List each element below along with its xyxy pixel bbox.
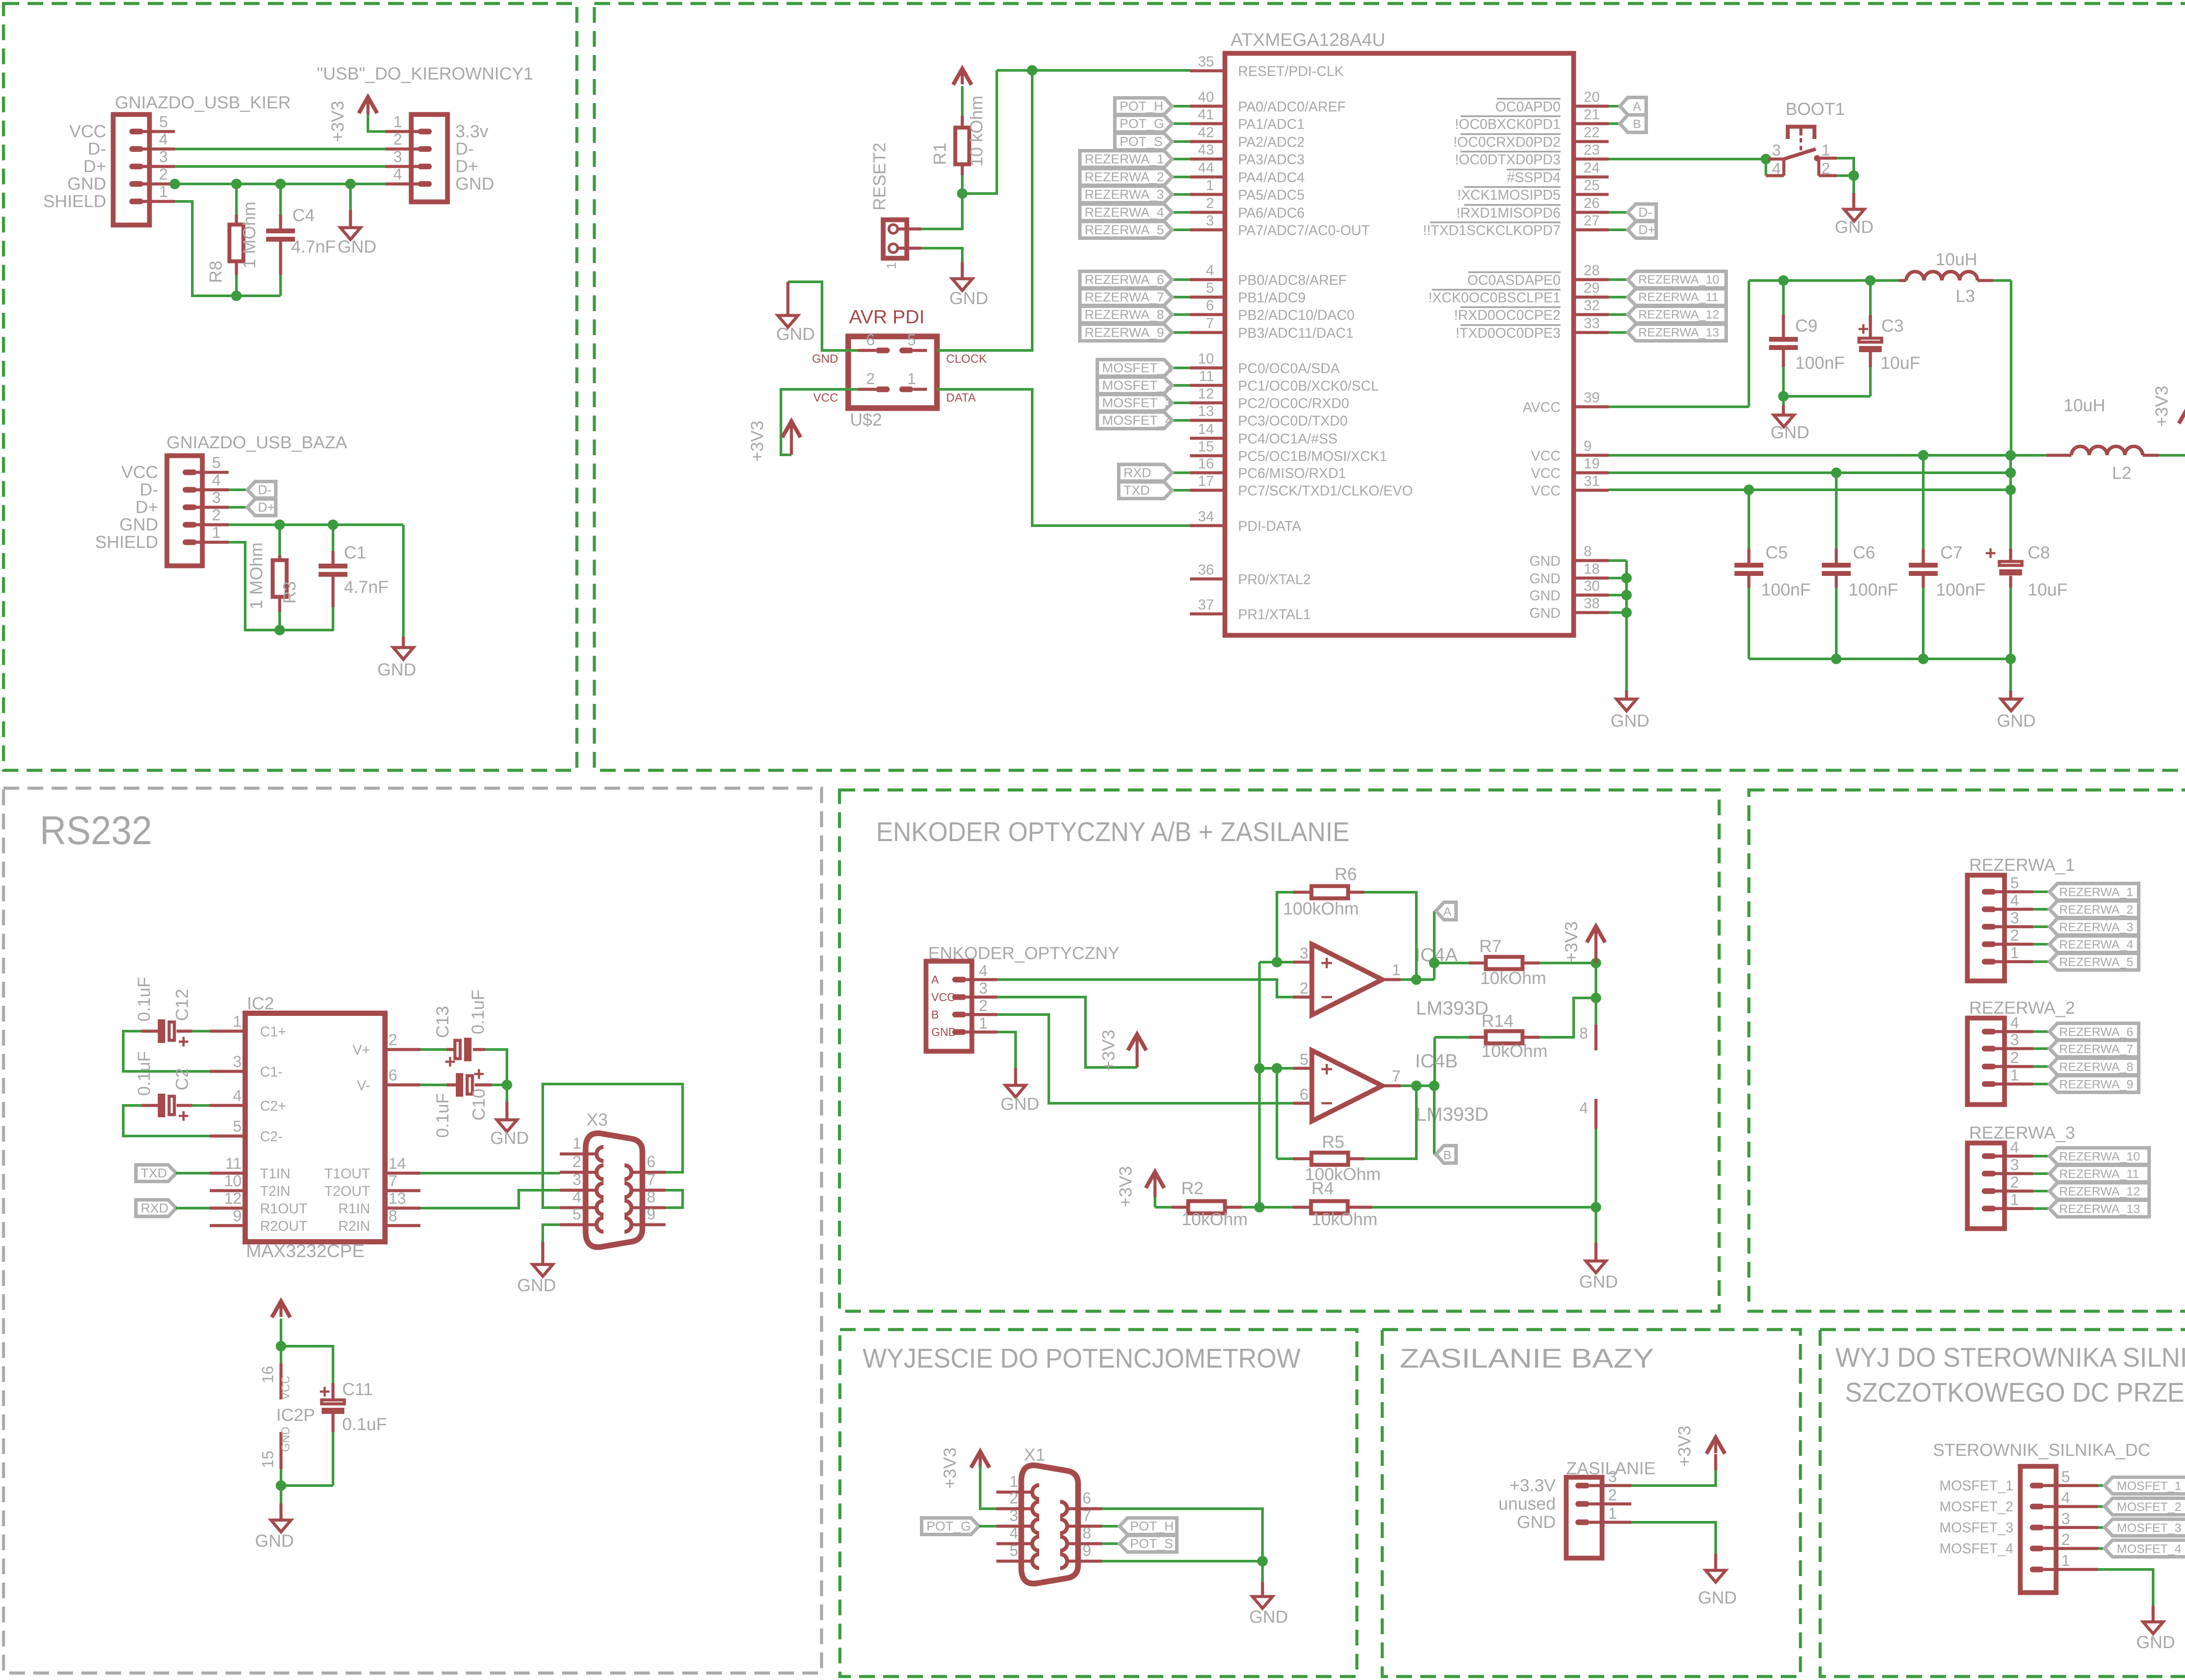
svg-text:TXD: TXD <box>1124 483 1150 498</box>
svg-text:BOOT1: BOOT1 <box>1786 100 1845 119</box>
svg-text:+3.3V: +3.3V <box>1509 1476 1556 1495</box>
svg-text:10kOhm: 10kOhm <box>1480 969 1546 988</box>
svg-text:22: 22 <box>1584 124 1600 140</box>
svg-text:!TXD0OC0DPE3: !TXD0OC0DPE3 <box>1456 325 1561 341</box>
svg-text:T2IN: T2IN <box>260 1183 290 1199</box>
svg-text:REZERWA_2: REZERWA_2 <box>1969 998 2075 1018</box>
svg-text:2: 2 <box>1206 195 1214 211</box>
svg-text:GNIAZDO_USB_KIER: GNIAZDO_USB_KIER <box>115 93 291 112</box>
svg-text:TXD: TXD <box>141 1166 167 1181</box>
svg-text:T2OUT: T2OUT <box>324 1183 370 1199</box>
svg-text:1: 1 <box>884 262 899 270</box>
svg-text:38: 38 <box>1584 595 1600 611</box>
svg-text:4: 4 <box>212 471 221 489</box>
svg-text:1: 1 <box>572 1134 581 1152</box>
svg-text:4: 4 <box>1579 1099 1588 1117</box>
svg-text:2: 2 <box>1821 159 1830 177</box>
svg-text:R14: R14 <box>1481 1011 1513 1031</box>
svg-text:12: 12 <box>224 1189 242 1207</box>
svg-text:2: 2 <box>1300 979 1308 997</box>
svg-text:1: 1 <box>2010 1191 2019 1209</box>
svg-text:IC4B: IC4B <box>1415 1050 1458 1072</box>
svg-text:2: 2 <box>388 1031 397 1049</box>
svg-text:L2: L2 <box>2112 464 2132 483</box>
svg-text:4: 4 <box>1206 262 1214 278</box>
svg-text:2: 2 <box>866 370 875 388</box>
svg-text:7: 7 <box>388 1172 397 1190</box>
svg-text:GND: GND <box>776 325 815 344</box>
svg-text:+3V3: +3V3 <box>328 101 347 142</box>
svg-text:B: B <box>1443 1148 1452 1162</box>
svg-text:2: 2 <box>1009 1489 1018 1507</box>
svg-text:3: 3 <box>979 979 988 997</box>
svg-text:R5: R5 <box>1322 1133 1344 1152</box>
svg-text:POT_S: POT_S <box>1120 135 1162 149</box>
svg-text:6: 6 <box>388 1066 397 1084</box>
svg-text:4: 4 <box>2061 1489 2070 1507</box>
svg-text:8: 8 <box>647 1188 655 1206</box>
svg-text:41: 41 <box>1198 106 1214 122</box>
svg-text:ZASILANIE BAZY: ZASILANIE BAZY <box>1400 1344 1654 1374</box>
svg-text:GND: GND <box>931 1025 957 1039</box>
svg-text:REZERWA_10: REZERWA_10 <box>1638 273 1719 286</box>
svg-text:2: 2 <box>2010 1173 2019 1191</box>
svg-text:30: 30 <box>1584 578 1600 594</box>
svg-text:7: 7 <box>1392 1067 1401 1085</box>
svg-text:3: 3 <box>212 488 221 506</box>
svg-text:VCC: VCC <box>69 122 106 141</box>
svg-text:REZERWA_1: REZERWA_1 <box>1085 152 1164 166</box>
svg-text:3: 3 <box>1009 1507 1018 1524</box>
svg-text:31: 31 <box>1584 473 1600 489</box>
svg-text:#SSPD4: #SSPD4 <box>1507 170 1561 185</box>
svg-text:MOSFET_2: MOSFET_2 <box>1939 1499 2013 1514</box>
svg-text:VCC: VCC <box>279 1376 292 1400</box>
svg-text:100nF: 100nF <box>1936 580 1985 599</box>
svg-text:WYJ DO STEROWNIKA SILNIKA: WYJ DO STEROWNIKA SILNIKA <box>1835 1343 2185 1373</box>
svg-text:PA3/ADC3: PA3/ADC3 <box>1238 152 1304 167</box>
svg-text:GNIAZDO_USB_BAZA: GNIAZDO_USB_BAZA <box>166 433 347 452</box>
svg-text:REZERWA_11: REZERWA_11 <box>2059 1167 2139 1181</box>
svg-text:GND: GND <box>1529 571 1561 586</box>
svg-text:+3V3: +3V3 <box>748 421 767 462</box>
svg-text:+3V3: +3V3 <box>1562 921 1581 963</box>
svg-text:PDI-DATA: PDI-DATA <box>1238 518 1301 534</box>
svg-text:1: 1 <box>2010 1066 2019 1084</box>
svg-text:A: A <box>1633 100 1641 113</box>
svg-text:4: 4 <box>159 130 168 148</box>
svg-text:VCC: VCC <box>1531 465 1561 481</box>
svg-text:100kOhm: 100kOhm <box>1283 899 1359 918</box>
svg-text:REZERWA_12: REZERWA_12 <box>2059 1185 2140 1198</box>
svg-text:MOSFET_1: MOSFET_1 <box>2117 1479 2182 1493</box>
svg-text:PR0/XTAL2: PR0/XTAL2 <box>1238 572 1311 587</box>
svg-text:GND: GND <box>1529 605 1561 621</box>
svg-text:CLOCK: CLOCK <box>946 352 987 365</box>
svg-text:MOSFET_1: MOSFET_1 <box>1939 1478 2013 1493</box>
svg-text:10: 10 <box>1198 350 1214 367</box>
svg-text:6: 6 <box>1082 1489 1091 1507</box>
svg-text:12: 12 <box>1198 385 1214 402</box>
svg-text:3.3v: 3.3v <box>455 122 489 141</box>
svg-text:GND: GND <box>1249 1607 1288 1627</box>
svg-text:GND: GND <box>517 1276 556 1295</box>
svg-text:VCC: VCC <box>813 391 838 404</box>
svg-text:POT_G: POT_G <box>1120 117 1164 131</box>
svg-text:OC0ASDAPE0: OC0ASDAPE0 <box>1467 272 1561 288</box>
svg-text:REZERWA_12: REZERWA_12 <box>1638 308 1719 321</box>
svg-text:37: 37 <box>1198 596 1214 613</box>
svg-text:2: 2 <box>2061 1531 2070 1548</box>
svg-text:21: 21 <box>1584 106 1600 122</box>
svg-text:1: 1 <box>233 1012 242 1030</box>
svg-text:3: 3 <box>159 148 168 166</box>
svg-text:10 kOhm: 10 kOhm <box>967 96 986 166</box>
svg-text:PA1/ADC1: PA1/ADC1 <box>1238 116 1304 132</box>
svg-text:A: A <box>931 973 939 986</box>
svg-text:REZERWA_11: REZERWA_11 <box>1638 290 1718 304</box>
svg-text:REZERWA_1: REZERWA_1 <box>2059 885 2133 899</box>
svg-text:REZERWA_5: REZERWA_5 <box>2059 955 2133 969</box>
svg-text:11: 11 <box>1199 368 1214 384</box>
svg-text:REZERWA_9: REZERWA_9 <box>1085 326 1164 340</box>
svg-text:REZERWA_9: REZERWA_9 <box>2059 1077 2133 1091</box>
svg-text:2: 2 <box>212 506 221 524</box>
svg-text:16: 16 <box>1198 455 1214 471</box>
svg-text:REZERWA_8: REZERWA_8 <box>1085 308 1164 322</box>
svg-text:36: 36 <box>1198 561 1214 578</box>
svg-text:C1-: C1- <box>260 1064 283 1080</box>
svg-text:1: 1 <box>212 523 221 541</box>
svg-text:PC6/MISO/RXD1: PC6/MISO/RXD1 <box>1238 465 1346 481</box>
svg-text:27: 27 <box>1584 212 1600 229</box>
svg-text:GND: GND <box>255 1531 294 1551</box>
svg-text:32: 32 <box>1584 297 1600 313</box>
svg-text:MOSFET_4: MOSFET_4 <box>1939 1541 2013 1556</box>
svg-text:PR1/XTAL1: PR1/XTAL1 <box>1238 606 1311 622</box>
svg-text:SHIELD: SHIELD <box>43 192 107 211</box>
svg-text:C8: C8 <box>2028 543 2050 562</box>
svg-text:5: 5 <box>2061 1468 2070 1486</box>
svg-text:26: 26 <box>1584 195 1600 211</box>
svg-text:AVR PDI: AVR PDI <box>849 306 925 328</box>
svg-text:23: 23 <box>1584 142 1600 158</box>
svg-text:GND: GND <box>67 174 106 194</box>
svg-text:GND: GND <box>338 237 377 256</box>
svg-text:5: 5 <box>1206 280 1214 296</box>
svg-text:OC0APD0: OC0APD0 <box>1495 99 1561 114</box>
svg-text:!RXD0OC0CPE2: !RXD0OC0CPE2 <box>1454 307 1561 323</box>
svg-text:C9: C9 <box>1795 316 1817 336</box>
svg-text:GND: GND <box>1771 423 1810 442</box>
svg-text:C2: C2 <box>173 1068 192 1090</box>
svg-text:MOSFET_2: MOSFET_2 <box>1102 378 1172 393</box>
svg-text:15: 15 <box>1198 438 1214 454</box>
svg-text:PA7/ADC7/AC0-OUT: PA7/ADC7/AC0-OUT <box>1238 222 1370 238</box>
svg-text:C3: C3 <box>1881 316 1904 336</box>
svg-text:14: 14 <box>1198 421 1214 437</box>
svg-text:REZERWA_2: REZERWA_2 <box>1085 170 1164 184</box>
svg-text:4: 4 <box>1009 1524 1018 1542</box>
svg-text:VCC: VCC <box>121 463 158 482</box>
svg-text:RESET/PDI-CLK: RESET/PDI-CLK <box>1238 63 1344 79</box>
svg-text:3: 3 <box>2010 1031 2019 1049</box>
svg-text:V-: V- <box>357 1077 370 1093</box>
svg-text:5: 5 <box>907 331 916 349</box>
svg-text:REZERWA_13: REZERWA_13 <box>1638 326 1719 339</box>
svg-text:REZERWA_3: REZERWA_3 <box>2059 920 2133 934</box>
svg-text:42: 42 <box>1198 124 1214 140</box>
svg-text:GND: GND <box>2136 1633 2175 1652</box>
svg-text:PB3/ADC11/DAC1: PB3/ADC11/DAC1 <box>1238 325 1353 341</box>
svg-text:LM393D: LM393D <box>1416 1104 1488 1125</box>
svg-text:9: 9 <box>1584 438 1592 454</box>
svg-text:5: 5 <box>159 113 168 131</box>
svg-text:GND: GND <box>279 1427 292 1452</box>
svg-text:X3: X3 <box>586 1110 608 1129</box>
svg-text:D+: D+ <box>258 500 275 515</box>
svg-text:C7: C7 <box>1940 543 1963 562</box>
svg-text:!OC0CRXD0PD2: !OC0CRXD0PD2 <box>1453 134 1561 150</box>
svg-text:C1+: C1+ <box>260 1024 286 1039</box>
svg-text:5: 5 <box>233 1117 242 1135</box>
svg-text:A: A <box>1443 905 1452 918</box>
svg-text:GND: GND <box>119 515 158 534</box>
svg-text:GND: GND <box>490 1129 529 1148</box>
svg-text:D+: D+ <box>135 498 158 517</box>
svg-text:1: 1 <box>2061 1552 2070 1569</box>
svg-text:10kOhm: 10kOhm <box>1182 1210 1248 1229</box>
svg-text:GND: GND <box>1529 553 1561 569</box>
svg-text:R1OUT: R1OUT <box>260 1201 307 1216</box>
svg-text:REZERWA_6: REZERWA_6 <box>1085 273 1164 287</box>
svg-text:1: 1 <box>1009 1472 1018 1490</box>
svg-text:8: 8 <box>1584 543 1592 559</box>
svg-text:REZERWA_6: REZERWA_6 <box>2059 1025 2133 1039</box>
svg-text:3: 3 <box>1206 212 1214 229</box>
svg-text:D-: D- <box>455 139 474 159</box>
svg-text:3: 3 <box>1300 944 1308 962</box>
svg-text:C2+: C2+ <box>260 1098 286 1114</box>
svg-text:9: 9 <box>1082 1541 1091 1559</box>
svg-text:0.1uF: 0.1uF <box>468 990 488 1034</box>
svg-text:!OC0BXCK0PD1: !OC0BXCK0PD1 <box>1455 116 1561 132</box>
svg-text:9: 9 <box>647 1205 655 1223</box>
svg-text:D-: D- <box>88 139 106 159</box>
svg-text:1: 1 <box>1392 961 1401 979</box>
svg-text:4: 4 <box>233 1087 242 1105</box>
svg-text:SHIELD: SHIELD <box>95 533 159 552</box>
svg-text:6: 6 <box>1300 1085 1308 1103</box>
svg-text:+3V3: +3V3 <box>1099 1030 1118 1071</box>
svg-text:6: 6 <box>647 1153 655 1171</box>
svg-text:1: 1 <box>1206 177 1214 193</box>
svg-text:MOSFET_3: MOSFET_3 <box>1102 396 1172 410</box>
svg-text:2: 2 <box>572 1153 581 1171</box>
svg-text:3: 3 <box>233 1053 242 1070</box>
svg-text:REZERWA_3: REZERWA_3 <box>1085 187 1164 202</box>
svg-text:25: 25 <box>1584 177 1600 193</box>
svg-text:4.7nF: 4.7nF <box>344 578 388 597</box>
svg-text:4: 4 <box>1772 159 1781 177</box>
svg-text:REZERWA_10: REZERWA_10 <box>2059 1150 2140 1163</box>
svg-text:!OC0DTXD0PD3: !OC0DTXD0PD3 <box>1455 152 1561 167</box>
svg-text:C13: C13 <box>433 1006 452 1038</box>
svg-text:5: 5 <box>1300 1050 1308 1068</box>
svg-text:PA2/ADC2: PA2/ADC2 <box>1238 134 1304 150</box>
svg-text:MOSFET_1: MOSFET_1 <box>1102 361 1172 375</box>
svg-text:REZERWA_4: REZERWA_4 <box>2059 938 2133 951</box>
svg-text:VCC: VCC <box>1531 483 1561 499</box>
svg-text:C4: C4 <box>292 206 315 225</box>
svg-text:REZERWA_13: REZERWA_13 <box>2059 1202 2140 1216</box>
svg-text:2: 2 <box>1608 1486 1617 1504</box>
svg-text:STEROWNIK_SILNIKA_DC: STEROWNIK_SILNIKA_DC <box>1933 1441 2150 1460</box>
svg-text:MOSFET_4: MOSFET_4 <box>1102 413 1172 428</box>
svg-text:43: 43 <box>1198 142 1214 158</box>
svg-text:RS232: RS232 <box>40 808 152 853</box>
svg-text:ENKODER OPTYCZNY A/B + ZASILAN: ENKODER OPTYCZNY A/B + ZASILANIE <box>876 817 1349 847</box>
svg-text:PC0/OC0A/SDA: PC0/OC0A/SDA <box>1238 360 1340 376</box>
svg-text:35: 35 <box>1198 53 1214 69</box>
svg-text:GND: GND <box>1517 1513 1556 1532</box>
svg-text:R2OUT: R2OUT <box>260 1218 307 1234</box>
svg-text:GND: GND <box>378 660 416 679</box>
svg-text:R2IN: R2IN <box>338 1218 370 1234</box>
svg-text:18: 18 <box>1584 561 1600 577</box>
svg-text:POT_G: POT_G <box>926 1519 971 1534</box>
svg-text:1: 1 <box>979 1014 988 1032</box>
svg-text:1: 1 <box>2010 944 2019 962</box>
svg-text:4: 4 <box>2010 1014 2019 1032</box>
svg-text:GND: GND <box>1579 1272 1618 1292</box>
svg-text:GND: GND <box>1611 711 1650 731</box>
svg-text:MOSFET_2: MOSFET_2 <box>2117 1500 2182 1514</box>
svg-text:3: 3 <box>2010 909 2019 927</box>
svg-text:RXD: RXD <box>141 1201 168 1216</box>
svg-text:REZERWA_5: REZERWA_5 <box>1085 223 1164 237</box>
svg-text:MOSFET_3: MOSFET_3 <box>2117 1521 2182 1535</box>
svg-text:PA4/ADC4: PA4/ADC4 <box>1238 170 1304 185</box>
svg-text:0.1uF: 0.1uF <box>433 1093 452 1138</box>
svg-text:14: 14 <box>388 1154 406 1172</box>
svg-text:100nF: 100nF <box>1795 353 1845 373</box>
svg-text:10uH: 10uH <box>2064 396 2105 415</box>
svg-text:1: 1 <box>907 370 916 388</box>
svg-text:B: B <box>931 1008 939 1021</box>
svg-text:4: 4 <box>2010 891 2019 909</box>
svg-text:17: 17 <box>1198 473 1214 489</box>
svg-text:39: 39 <box>1584 389 1600 405</box>
svg-text:4: 4 <box>393 165 402 183</box>
svg-text:D-: D- <box>1638 205 1652 220</box>
svg-text:GND: GND <box>1997 711 2036 731</box>
svg-text:10uF: 10uF <box>1880 353 1920 373</box>
svg-text:10: 10 <box>224 1172 242 1190</box>
svg-text:3: 3 <box>1608 1468 1617 1486</box>
svg-text:1: 1 <box>1608 1504 1617 1522</box>
svg-text:+3V3: +3V3 <box>1675 1426 1694 1467</box>
svg-text:6: 6 <box>1206 297 1214 313</box>
svg-text:PA0/ADC0/AREF: PA0/ADC0/AREF <box>1238 99 1346 114</box>
svg-text:MOSFET_3: MOSFET_3 <box>1939 1520 2013 1535</box>
svg-text:PC1/OC0B/XCK0/SCL: PC1/OC0B/XCK0/SCL <box>1238 378 1379 394</box>
svg-text:SZCZOTKOWEGO DC PRZEZ AWeX: SZCZOTKOWEGO DC PRZEZ AWeX <box>1845 1378 2185 1408</box>
svg-text:REZERWA_3: REZERWA_3 <box>1969 1123 2075 1143</box>
svg-text:13: 13 <box>1198 403 1214 419</box>
svg-text:15: 15 <box>259 1451 277 1468</box>
svg-text:+3V3: +3V3 <box>940 1448 960 1489</box>
svg-text:PB2/ADC10/DAC0: PB2/ADC10/DAC0 <box>1238 307 1355 323</box>
svg-text:REZERWA_1: REZERWA_1 <box>1969 856 2075 875</box>
svg-text:20: 20 <box>1584 89 1600 105</box>
svg-text:MAX3232CPE: MAX3232CPE <box>246 1240 364 1261</box>
svg-text:POT_H: POT_H <box>1130 1519 1174 1534</box>
svg-text:5: 5 <box>2010 874 2019 892</box>
svg-text:!XCK1MOSIPD5: !XCK1MOSIPD5 <box>1457 187 1561 203</box>
svg-text:PA5/ADC5: PA5/ADC5 <box>1238 187 1304 203</box>
svg-text:+3V3: +3V3 <box>2152 386 2171 427</box>
svg-text:33: 33 <box>1584 315 1600 331</box>
svg-text:PC4/OC1A/#SS: PC4/OC1A/#SS <box>1238 431 1338 447</box>
svg-text:8: 8 <box>388 1207 397 1225</box>
svg-text:10uH: 10uH <box>1935 250 1977 269</box>
svg-text:8: 8 <box>1082 1524 1091 1542</box>
svg-text:GND: GND <box>1529 588 1561 603</box>
svg-text:2: 2 <box>2010 1049 2019 1067</box>
svg-text:4: 4 <box>572 1188 581 1206</box>
svg-text:2: 2 <box>2010 926 2019 944</box>
svg-text:REZERWA_7: REZERWA_7 <box>2059 1042 2133 1056</box>
svg-text:10kOhm: 10kOhm <box>1481 1042 1547 1061</box>
svg-text:R8: R8 <box>206 260 225 283</box>
svg-text:9: 9 <box>233 1207 242 1225</box>
svg-text:1 MOhm: 1 MOhm <box>240 201 259 268</box>
svg-text:REZERWA_4: REZERWA_4 <box>1085 205 1164 220</box>
svg-text:10uF: 10uF <box>2028 580 2067 599</box>
svg-text:GND: GND <box>812 352 838 365</box>
svg-text:D+: D+ <box>455 157 478 176</box>
svg-text:100nF: 100nF <box>1761 580 1810 599</box>
svg-text:10kOhm: 10kOhm <box>1311 1210 1377 1229</box>
svg-text:IC2P: IC2P <box>276 1406 315 1425</box>
svg-text:!RXD1MISOPD6: !RXD1MISOPD6 <box>1457 205 1561 221</box>
svg-text:REZERWA_2: REZERWA_2 <box>2059 903 2133 916</box>
svg-text:44: 44 <box>1198 159 1214 176</box>
svg-text:8: 8 <box>1579 1024 1588 1042</box>
svg-text:0.1uF: 0.1uF <box>342 1415 387 1434</box>
svg-text:3: 3 <box>1772 141 1781 159</box>
svg-text:PB1/ADC9: PB1/ADC9 <box>1238 290 1306 305</box>
svg-text:PC5/OC1B/MOSI/XCK1: PC5/OC1B/MOSI/XCK1 <box>1238 448 1387 464</box>
svg-text:POT_H: POT_H <box>1120 99 1163 114</box>
svg-text:1 MOhm: 1 MOhm <box>247 542 266 609</box>
svg-text:D-: D- <box>140 480 158 499</box>
svg-text:DATA: DATA <box>946 391 976 404</box>
svg-text:RXD: RXD <box>1124 466 1151 480</box>
svg-text:PB0/ADC8/AREF: PB0/ADC8/AREF <box>1238 272 1347 288</box>
svg-text:GND: GND <box>455 174 494 194</box>
svg-text:R6: R6 <box>1335 865 1357 884</box>
svg-text:2: 2 <box>979 997 988 1015</box>
svg-text:28: 28 <box>1584 262 1600 278</box>
svg-text:D+: D+ <box>1638 223 1655 237</box>
svg-text:R3: R3 <box>280 581 299 603</box>
svg-text:!XCK0OC0BSCLPE1: !XCK0OC0BSCLPE1 <box>1429 290 1561 305</box>
svg-text:7: 7 <box>1206 315 1214 331</box>
svg-text:4: 4 <box>979 962 988 980</box>
svg-text:3: 3 <box>2061 1510 2070 1528</box>
